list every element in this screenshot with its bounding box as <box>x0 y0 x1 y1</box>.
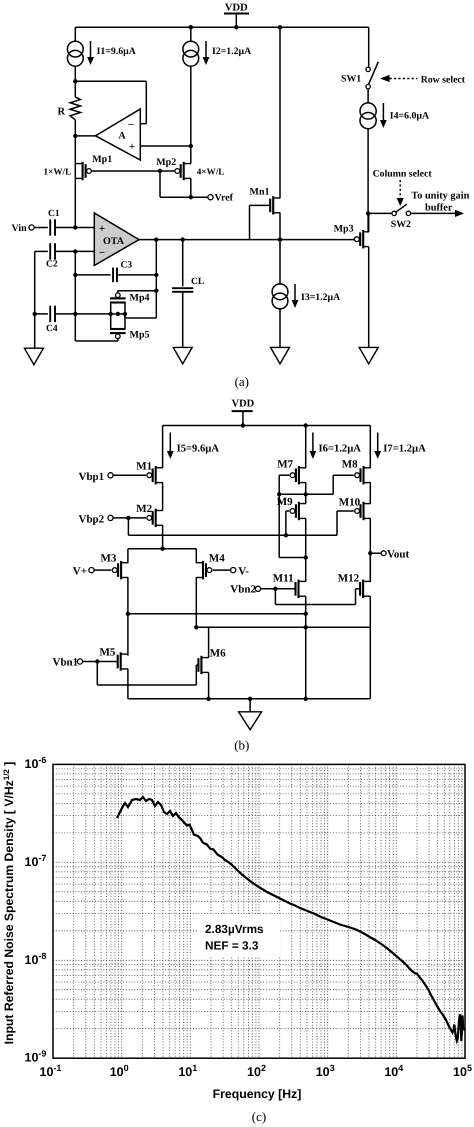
transistor M9 <box>298 502 300 520</box>
node ground tap <box>248 697 252 701</box>
node R bottom / A output <box>73 134 77 138</box>
wire Vout lead <box>370 552 381 554</box>
terminal Vbp1 <box>108 473 113 478</box>
wire C2 to minus node <box>55 250 94 252</box>
wire I3 to ground <box>279 308 281 347</box>
power VDD symbol <box>224 13 249 15</box>
wire Mp3 drain to ground <box>368 247 370 348</box>
ground I3 <box>271 347 290 364</box>
node Vbp2 junction <box>126 516 130 520</box>
transistor M8 <box>362 466 364 484</box>
chart grid <box>73 764 75 1058</box>
svg-text:Vbp1: Vbp1 <box>79 471 105 483</box>
wire M12 source down <box>369 596 371 699</box>
terminal V- <box>231 568 236 573</box>
svg-text:(a): (a) <box>235 374 249 389</box>
wire C1 to plus node <box>55 227 94 229</box>
terminal Vref <box>208 195 213 200</box>
svg-text:M7: M7 <box>277 458 293 470</box>
wire M9 gate <box>286 510 289 512</box>
node output C3 junction <box>154 273 158 277</box>
svg-text:Column select: Column select <box>373 169 433 180</box>
wire gate bus <box>92 170 175 172</box>
wire M7 drain to M9 <box>305 483 307 504</box>
svg-text:2.83µVrms: 2.83µVrms <box>205 922 264 936</box>
svg-text:(b): (b) <box>234 738 249 753</box>
node OTA plus input <box>73 225 77 229</box>
svg-text:C1: C1 <box>48 209 60 219</box>
node M11 source rail <box>304 697 308 701</box>
svg-text:SW1: SW1 <box>341 74 361 85</box>
wire M3 drain down <box>127 578 129 656</box>
wire M8 drain to M10 <box>369 483 371 504</box>
wire pseudoresistor right edge <box>124 303 126 330</box>
capacitor C3 <box>112 268 114 283</box>
wire Mp5 gate return <box>117 339 119 341</box>
ground CL <box>173 347 192 364</box>
node rail-I2 junction <box>189 25 193 29</box>
wire A plus input to I2 branch <box>140 145 191 147</box>
transistor M1 <box>155 466 157 484</box>
transistor M3 <box>120 561 122 579</box>
transistor Mp2 <box>183 162 185 180</box>
wire Mp2 drain to Vref <box>190 178 192 197</box>
svg-text:Vref: Vref <box>215 193 234 204</box>
node output-Mp4gate junction <box>154 289 158 293</box>
wire tail to M4 <box>195 549 197 563</box>
svg-text:M5: M5 <box>100 647 116 659</box>
svg-text:Mp1: Mp1 <box>92 154 112 165</box>
svg-text:VDD: VDD <box>232 399 255 410</box>
wire Mn1 gate <box>250 204 271 206</box>
svg-text:Vout: Vout <box>387 548 410 560</box>
node Mn1 source junction <box>278 237 282 241</box>
svg-text:M11: M11 <box>273 572 294 584</box>
wire V+ to M3 gate <box>94 569 111 571</box>
capacitor CL <box>172 287 193 289</box>
svg-text:+: + <box>99 223 105 235</box>
current source I2 <box>183 41 199 57</box>
svg-text:Mp4: Mp4 <box>130 293 150 304</box>
transistor Mp4 channel <box>110 301 126 303</box>
wire Mp1 drain down <box>74 178 76 227</box>
svg-text:(c): (c) <box>252 1109 266 1124</box>
node OTA minus input <box>73 249 77 253</box>
svg-text:M3: M3 <box>101 552 117 564</box>
wire M1 to M2 <box>162 483 164 511</box>
wire left branch to C2 <box>35 250 48 252</box>
node diode junction <box>304 555 308 559</box>
wire tail to M3 <box>127 549 129 563</box>
wire M2 drain to tail <box>162 525 164 548</box>
wire C4 row left <box>35 313 48 315</box>
wire Mp4 gate up <box>117 291 119 293</box>
annotation background <box>198 915 280 957</box>
svg-text:SW2: SW2 <box>391 219 411 230</box>
transistor M11 <box>297 580 299 598</box>
arrow I1 direction <box>90 41 92 58</box>
wire Vbp1 to M1 gate <box>113 474 146 476</box>
svg-text:R: R <box>58 107 66 118</box>
wire to I3 <box>279 240 281 285</box>
wire VDD rail b <box>163 425 371 427</box>
svg-text:Vin: Vin <box>12 223 28 234</box>
node rail-VDD junction <box>234 25 238 29</box>
wire Vbn1 to M6 gate <box>96 662 98 686</box>
wire M9 drain down <box>305 518 307 581</box>
wire CL top <box>182 240 184 287</box>
noise curve <box>117 797 465 1041</box>
power VDD symbol b <box>232 410 253 412</box>
capacitor C1 <box>49 219 51 235</box>
wire mirror gate bus <box>279 493 333 495</box>
terminal Vin <box>29 225 34 230</box>
transistor M5 <box>120 652 122 670</box>
wire M6 drain up <box>208 627 210 657</box>
wire M11 gate to M12 gate <box>274 589 276 605</box>
transistor Mp4 gate <box>110 297 126 299</box>
wire M7 gate <box>279 474 289 476</box>
wire minus node vertical <box>74 251 76 341</box>
transistor Mp5 gate <box>110 332 126 334</box>
svg-text:4×W/L: 4×W/L <box>197 167 225 177</box>
current source I3 <box>272 284 288 300</box>
wire Vbn1 to M5 gate <box>83 661 118 663</box>
arrow I7 <box>377 433 379 453</box>
transistor M7 <box>298 466 300 484</box>
wire minus to C3 <box>75 274 110 276</box>
node pseudoresistor right <box>123 312 127 316</box>
wire fold bus A <box>128 613 306 615</box>
wire Vin to C1 <box>34 227 48 229</box>
svg-text:A: A <box>118 131 126 142</box>
svg-text:−: − <box>99 247 105 259</box>
svg-text:M12: M12 <box>338 572 360 584</box>
svg-text:Row select: Row select <box>421 74 466 85</box>
arrow I5 <box>169 433 171 453</box>
svg-text:OTA: OTA <box>103 236 125 247</box>
wire Mp3 source <box>368 213 370 231</box>
node C4 right junction <box>73 312 77 316</box>
node M11 source - bus A <box>304 612 308 616</box>
ground b <box>239 712 262 730</box>
arrow I4 direction <box>382 103 384 121</box>
wire gate to Vref loop <box>159 171 161 197</box>
wire C4 to pseudoresistor <box>55 313 110 315</box>
svg-text:Mp5: Mp5 <box>130 330 150 341</box>
wire pseudoresistor to output <box>125 317 156 319</box>
node M7 drain junction <box>304 492 308 496</box>
wire to SW2 <box>368 212 391 214</box>
svg-text:I4=6.0µA: I4=6.0µA <box>390 111 429 122</box>
wire Mp1 source <box>74 136 76 164</box>
wire fold bus B <box>196 626 370 628</box>
wire ground rail <box>128 698 370 700</box>
transistor M4 <box>202 561 204 579</box>
wire feedback top <box>75 80 146 82</box>
svg-text:M10: M10 <box>339 497 361 509</box>
wire rail to I2 <box>190 27 192 41</box>
svg-text:Mn1: Mn1 <box>250 187 270 198</box>
node pseudoresistor mid <box>116 312 120 316</box>
wire left ground branch <box>34 251 36 348</box>
current source I4 <box>360 103 376 119</box>
node tail junction <box>160 547 164 551</box>
node rail-VDD b <box>241 423 245 427</box>
wire ground stem <box>249 699 251 712</box>
node fold B - M11 crossing <box>304 625 308 629</box>
node M6 source rail <box>206 697 210 701</box>
wire pseudoresistor mid <box>111 313 125 315</box>
wire rail to M8 <box>369 426 371 468</box>
wire Vbp2 to M2 gate <box>113 517 146 519</box>
terminal Vbn1 <box>77 659 82 664</box>
wire tail bus <box>128 548 196 550</box>
transistor Mp3 <box>362 230 364 248</box>
svg-text:V+: V+ <box>73 566 87 578</box>
svg-text:I3=1.2µA: I3=1.2µA <box>301 292 340 303</box>
transistor M2 <box>155 509 157 527</box>
transistor Mp1 <box>82 162 84 180</box>
svg-text:Input Referred Noise Spectrum: Input Referred Noise Spectrum Density [ … <box>2 762 16 1045</box>
svg-text:M6: M6 <box>210 647 226 659</box>
svg-text:M2: M2 <box>136 503 152 515</box>
svg-text:CL: CL <box>191 277 204 287</box>
node Vout junction <box>368 551 372 555</box>
node plus-input junction <box>189 144 193 148</box>
wire Mn1 source <box>279 213 281 240</box>
wire rail to SW1 <box>368 27 370 67</box>
svg-text:C3: C3 <box>121 261 133 271</box>
node M9 gate junction <box>284 533 288 537</box>
node pseudoresistor left <box>109 312 113 316</box>
arrow Row select <box>380 75 390 82</box>
node SW2 junction <box>366 211 370 215</box>
svg-text:Frequency [Hz]: Frequency [Hz] <box>213 1087 302 1101</box>
wire M6 source <box>208 672 210 698</box>
wire pseudoresistor left edge <box>110 303 112 330</box>
arrow I6 <box>312 433 314 453</box>
node M3 drain junction <box>126 612 130 616</box>
wire M11 source down <box>305 596 307 699</box>
svg-text:C4: C4 <box>46 324 58 334</box>
svg-text:I6=1.2µA: I6=1.2µA <box>319 443 362 454</box>
wire M5 source <box>127 669 129 699</box>
wire M8 gate <box>333 474 354 476</box>
svg-text:Vbn1: Vbn1 <box>53 657 79 669</box>
terminal Vout <box>381 551 386 556</box>
svg-text:Mp3: Mp3 <box>334 224 354 235</box>
svg-text:−: − <box>128 119 134 131</box>
switch SW2 <box>392 211 396 215</box>
svg-text:1×W/L: 1×W/L <box>44 167 72 177</box>
wire M12 drain up <box>369 553 371 582</box>
node rail-Mn1 junction <box>278 25 282 29</box>
wire M10 drain to Vout <box>369 518 371 581</box>
wire SW1 to I4 <box>367 89 369 103</box>
transistor Mn1 <box>272 196 274 214</box>
wire I2 to Mp2 source <box>190 66 192 164</box>
svg-text:VDD: VDD <box>225 3 248 14</box>
svg-text:Vbn2: Vbn2 <box>230 584 256 596</box>
node Vbn2 junction <box>273 587 277 591</box>
wire CL bottom <box>182 292 184 348</box>
wire R to node <box>74 120 76 136</box>
svg-text:M1: M1 <box>136 461 152 473</box>
transistor Mp5 channel <box>110 328 126 330</box>
node Vbn1 junction <box>95 659 99 663</box>
node output-CL junction <box>181 237 185 241</box>
wire diode link <box>279 557 306 559</box>
wire A output <box>75 135 95 137</box>
svg-text:+: + <box>129 141 135 153</box>
arrow to unity gain buffer <box>411 212 456 214</box>
svg-text:To unity gain: To unity gain <box>411 190 469 201</box>
node mirror bus left <box>277 492 281 496</box>
svg-text:buffer: buffer <box>425 202 453 213</box>
wire Mp1 arm joins <box>74 164 76 179</box>
svg-text:I5=9.6µA: I5=9.6µA <box>177 443 220 454</box>
chart border <box>53 764 465 1058</box>
svg-text:I1=9.6µA: I1=9.6µA <box>97 46 136 57</box>
wire rail to M7 <box>305 426 307 468</box>
resistor R <box>70 97 80 120</box>
node C3 left junction <box>73 273 77 277</box>
svg-text:M8: M8 <box>342 458 358 470</box>
wire VDD top rail <box>75 26 368 28</box>
wire rail to M1 <box>162 426 164 468</box>
wire I4 to SW2 node <box>367 129 369 233</box>
svg-text:I7=1.2µA: I7=1.2µA <box>383 443 426 454</box>
wire M10 gate <box>337 510 354 512</box>
wire Vref lead <box>191 196 208 198</box>
current source I1 <box>67 41 83 57</box>
arrow I3 direction <box>294 284 296 301</box>
node R top / feedback <box>73 79 77 83</box>
wire C3 to output branch <box>117 274 156 276</box>
op-amp OTA <box>94 213 139 266</box>
svg-text:M4: M4 <box>209 552 225 564</box>
wire Vbp2 to cascode bias bus <box>127 518 129 535</box>
transistor M6 <box>200 656 202 674</box>
node C4 left junction <box>33 312 37 316</box>
ground Mp3 <box>359 347 378 364</box>
svg-text:C2: C2 <box>46 260 58 270</box>
svg-text:Vbp2: Vbp2 <box>79 513 105 525</box>
op-amp A <box>96 109 141 160</box>
wire node to R <box>74 81 76 97</box>
svg-text:M9: M9 <box>277 496 293 508</box>
wire Vbn2 to M11 gate <box>261 588 296 590</box>
svg-text:V-: V- <box>238 566 249 578</box>
wire rail to I1 <box>74 27 76 41</box>
capacitor C4 <box>49 306 51 322</box>
wire M4 drain down <box>195 578 197 628</box>
svg-text:NEF = 3.3: NEF = 3.3 <box>205 939 259 953</box>
wire Mn1 drain <box>279 27 281 198</box>
node M4 drain junction <box>194 625 198 629</box>
switch SW1 <box>366 67 370 71</box>
wire V- to M4 gate <box>213 569 231 571</box>
terminal Vbn2 <box>255 586 260 591</box>
ground left <box>24 348 43 365</box>
wire I1 to node <box>74 66 76 81</box>
svg-text:I2=1.2µA: I2=1.2µA <box>212 46 251 57</box>
wire OTA output rail <box>139 239 355 241</box>
svg-text:Mp2: Mp2 <box>156 157 176 168</box>
terminal V+ <box>89 568 94 573</box>
arrow I2 direction <box>205 41 207 58</box>
node output-C3 branch <box>154 237 158 241</box>
capacitor C2 <box>49 243 51 259</box>
transistor M12 <box>362 580 364 598</box>
transistor M10 <box>362 502 364 520</box>
arrow Column select <box>399 180 401 198</box>
wire output branch down <box>155 240 157 318</box>
node Vref <box>189 195 193 199</box>
node rail-M7 <box>304 423 308 427</box>
terminal Vbp2 <box>108 515 113 520</box>
node gate bus junction <box>158 169 162 173</box>
